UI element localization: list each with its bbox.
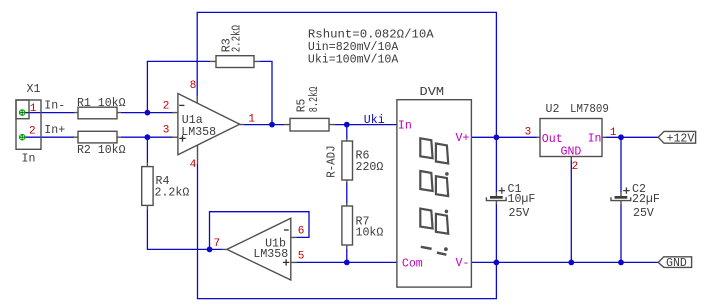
svg-text:LM7809: LM7809 <box>570 103 609 116</box>
svg-text:In-: In- <box>44 99 65 112</box>
svg-text:In: In <box>588 133 602 146</box>
svg-text:Uki=100mV/10A: Uki=100mV/10A <box>308 53 398 66</box>
svg-text:22µF: 22µF <box>632 193 660 206</box>
svg-text:R5: R5 <box>295 99 308 113</box>
svg-text:X1: X1 <box>27 83 41 96</box>
svg-text:3: 3 <box>163 124 170 136</box>
svg-text:8.2kΩ: 8.2kΩ <box>308 87 321 113</box>
svg-text:R1 10kΩ: R1 10kΩ <box>77 97 126 110</box>
svg-text:10kΩ: 10kΩ <box>356 226 384 239</box>
svg-text:5: 5 <box>298 250 305 262</box>
svg-text:R-ADJ: R-ADJ <box>325 145 338 177</box>
svg-text:U1a: U1a <box>182 114 203 127</box>
svg-text:220Ω: 220Ω <box>356 161 384 174</box>
svg-text:In: In <box>22 153 36 166</box>
svg-text:V-: V- <box>456 257 470 270</box>
svg-text:10µF: 10µF <box>508 193 536 206</box>
svg-text:25V: 25V <box>633 207 654 220</box>
svg-text:GND: GND <box>561 146 582 159</box>
svg-text:U2: U2 <box>546 103 560 116</box>
svg-text:2: 2 <box>572 161 579 173</box>
svg-text:Uin=820mV/10A: Uin=820mV/10A <box>308 41 398 54</box>
svg-text:2.2kΩ: 2.2kΩ <box>155 186 190 199</box>
svg-text:In+: In+ <box>44 124 65 137</box>
svg-text:1: 1 <box>30 103 37 115</box>
svg-text:3: 3 <box>525 127 532 139</box>
svg-text:6: 6 <box>298 225 305 237</box>
svg-text:GND: GND <box>666 257 687 270</box>
svg-text:8: 8 <box>190 80 197 92</box>
svg-text:LM358: LM358 <box>181 126 216 139</box>
svg-text:Uki: Uki <box>364 114 385 127</box>
svg-text:2.2kΩ: 2.2kΩ <box>231 25 244 52</box>
svg-text:2: 2 <box>163 100 170 112</box>
svg-text:1: 1 <box>248 114 255 126</box>
svg-text:Rshunt=0.082Ω/10A: Rshunt=0.082Ω/10A <box>308 29 434 42</box>
svg-text:LM358: LM358 <box>253 248 288 261</box>
svg-text:1: 1 <box>610 127 617 139</box>
svg-text:7: 7 <box>214 238 221 250</box>
svg-text:25V: 25V <box>509 207 530 220</box>
svg-text:Out: Out <box>542 133 563 146</box>
svg-text:V+: V+ <box>456 132 470 145</box>
svg-text:Com: Com <box>402 257 423 270</box>
svg-text:R2 10kΩ: R2 10kΩ <box>77 144 126 157</box>
svg-text:+12V: +12V <box>667 133 695 146</box>
svg-text:2: 2 <box>29 126 36 138</box>
svg-text:4: 4 <box>190 159 197 171</box>
svg-text:In: In <box>398 119 412 132</box>
svg-text:DVM: DVM <box>420 86 445 99</box>
